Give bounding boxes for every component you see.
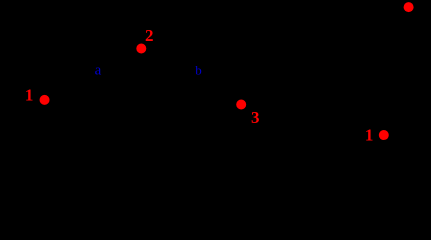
svg-text:a: a xyxy=(95,62,102,78)
svg-text:b: b xyxy=(195,62,202,77)
svg-text:3: 3 xyxy=(251,108,260,127)
atom marker dot 1 (left) xyxy=(40,95,50,105)
svg-text:2: 2 xyxy=(145,26,154,45)
atom marker dot bottom-right xyxy=(379,130,389,140)
atom marker dot 2 xyxy=(136,44,146,54)
atom marker dot 3 xyxy=(236,100,246,110)
svg-text:1: 1 xyxy=(25,86,34,105)
atom marker dot top-right xyxy=(404,2,414,12)
svg-text:1: 1 xyxy=(365,125,374,144)
